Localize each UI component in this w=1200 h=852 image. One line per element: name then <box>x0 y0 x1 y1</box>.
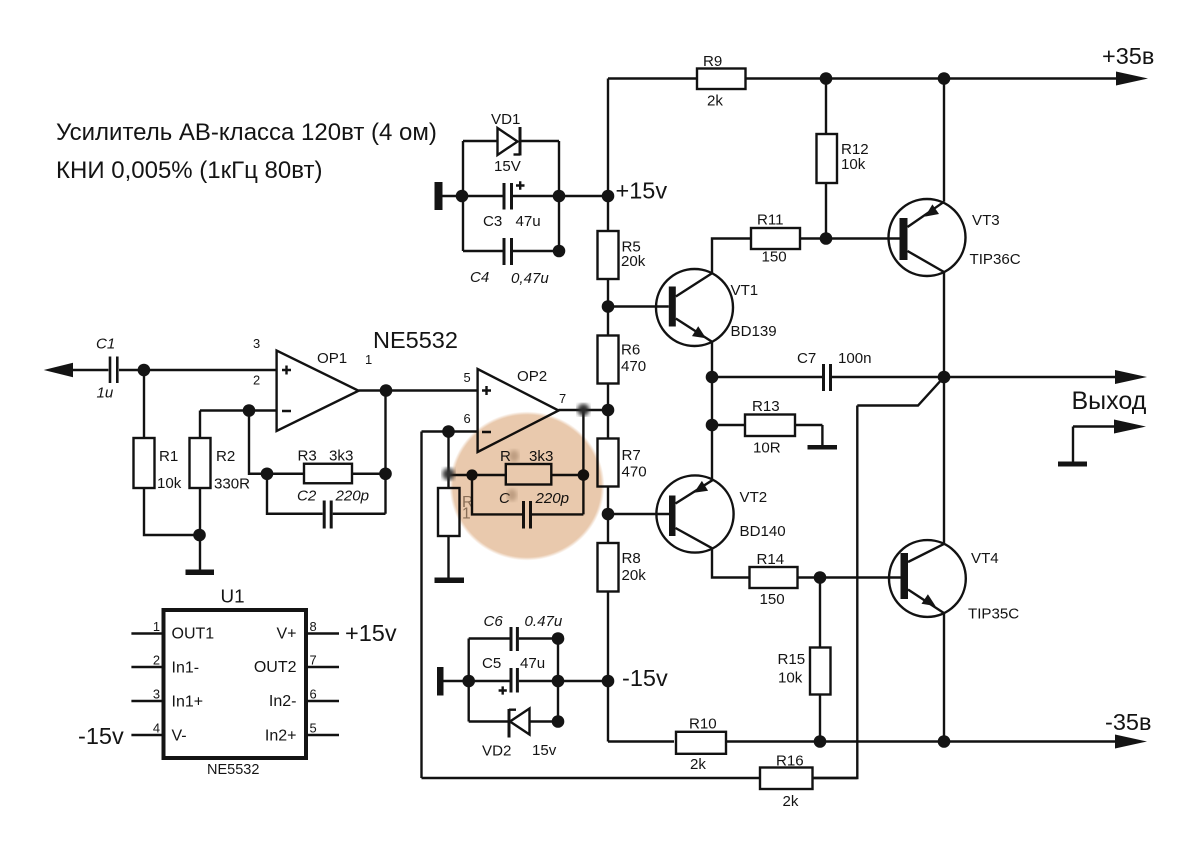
svg-text:1: 1 <box>365 352 372 367</box>
svg-text:C2: C2 <box>297 488 317 505</box>
svg-text:5: 5 <box>464 370 471 385</box>
svg-text:1: 1 <box>153 619 160 634</box>
svg-text:10k: 10k <box>778 670 803 687</box>
svg-text:-35в: -35в <box>1105 709 1151 735</box>
svg-text:150: 150 <box>760 591 785 608</box>
svg-text:Усилитель АВ-класса 120вт (4 о: Усилитель АВ-класса 120вт (4 ом) <box>56 119 437 146</box>
svg-text:NE5532: NE5532 <box>207 762 259 778</box>
svg-text:V+: V+ <box>276 626 296 643</box>
svg-text:3: 3 <box>253 336 260 351</box>
svg-text:OUT1: OUT1 <box>172 626 215 643</box>
svg-text:R2: R2 <box>216 448 235 465</box>
svg-text:OP2: OP2 <box>517 368 547 385</box>
svg-text:2k: 2k <box>707 93 723 110</box>
svg-text:15V: 15V <box>494 158 521 175</box>
svg-text:+35в: +35в <box>1102 43 1154 69</box>
svg-text:NE5532: NE5532 <box>373 327 458 353</box>
svg-text:20k: 20k <box>622 567 647 584</box>
svg-text:In1+: In1+ <box>172 694 204 711</box>
svg-text:2: 2 <box>153 653 160 668</box>
svg-text:OP1: OP1 <box>317 350 347 367</box>
svg-text:10R: 10R <box>753 440 781 457</box>
svg-text:VT3: VT3 <box>972 212 1000 229</box>
svg-text:BD139: BD139 <box>731 323 777 340</box>
svg-text:47u: 47u <box>516 213 541 230</box>
svg-text:R9: R9 <box>703 53 722 70</box>
svg-text:VD1: VD1 <box>491 111 520 128</box>
svg-text:V-: V- <box>172 728 187 745</box>
svg-text:OUT2: OUT2 <box>254 659 297 676</box>
svg-text:+15v: +15v <box>345 620 397 646</box>
svg-text:In1-: In1- <box>172 660 200 677</box>
svg-text:220p: 220p <box>335 488 370 505</box>
svg-text:VT2: VT2 <box>740 489 768 506</box>
svg-text:R3: R3 <box>298 448 317 465</box>
svg-text:R15: R15 <box>778 651 806 668</box>
svg-text:R16: R16 <box>776 753 804 770</box>
svg-text:TIP36C: TIP36C <box>970 251 1021 268</box>
svg-text:10k: 10k <box>841 156 866 173</box>
svg-text:2k: 2k <box>783 793 799 810</box>
svg-text:R8: R8 <box>622 550 641 567</box>
svg-text:470: 470 <box>622 464 647 481</box>
svg-text:TIP35C: TIP35C <box>968 606 1019 623</box>
svg-text:R14: R14 <box>757 551 785 568</box>
svg-text:0.47u: 0.47u <box>525 613 563 630</box>
svg-text:C6: C6 <box>484 613 504 630</box>
svg-text:7: 7 <box>310 653 317 668</box>
svg-text:10k: 10k <box>157 475 182 492</box>
svg-text:7: 7 <box>559 391 566 406</box>
svg-text:R11: R11 <box>757 212 784 229</box>
svg-text:VT4: VT4 <box>971 550 999 567</box>
svg-text:КНИ 0,005% (1кГц 80вт): КНИ 0,005% (1кГц 80вт) <box>56 157 322 184</box>
svg-text:C1: C1 <box>96 336 115 353</box>
svg-text:0,47u: 0,47u <box>511 270 549 287</box>
svg-text:R10: R10 <box>689 716 717 733</box>
svg-text:150: 150 <box>762 249 787 266</box>
svg-text:R6: R6 <box>621 342 640 359</box>
svg-text:-15v: -15v <box>622 665 668 691</box>
svg-text:BD140: BD140 <box>740 523 786 540</box>
svg-text:C4: C4 <box>470 269 489 286</box>
svg-text:2k: 2k <box>690 756 706 773</box>
svg-text:15v: 15v <box>532 742 557 759</box>
svg-text:C3: C3 <box>483 213 502 230</box>
svg-text:+15v: +15v <box>616 178 668 204</box>
svg-text:47u: 47u <box>520 655 545 672</box>
svg-text:100n: 100n <box>838 350 872 367</box>
svg-text:C5: C5 <box>482 655 501 672</box>
svg-text:470: 470 <box>621 358 646 375</box>
svg-text:20k: 20k <box>621 253 646 270</box>
svg-text:6: 6 <box>464 411 471 426</box>
svg-text:330R: 330R <box>214 476 250 493</box>
svg-text:In2+: In2+ <box>265 728 297 745</box>
svg-text:1u: 1u <box>97 385 114 402</box>
svg-text:R7: R7 <box>622 447 641 464</box>
svg-text:Выход: Выход <box>1072 387 1147 415</box>
svg-text:C7: C7 <box>797 350 816 367</box>
svg-text:3k3: 3k3 <box>329 448 353 465</box>
svg-text:R1: R1 <box>159 448 178 465</box>
svg-text:R13: R13 <box>752 398 780 415</box>
svg-text:5: 5 <box>310 721 317 736</box>
svg-text:2: 2 <box>253 373 260 388</box>
svg-text:VT1: VT1 <box>731 282 759 299</box>
svg-text:4: 4 <box>153 721 160 736</box>
svg-text:3: 3 <box>153 687 160 702</box>
svg-text:VD2: VD2 <box>482 743 511 760</box>
svg-text:-15v: -15v <box>78 723 124 749</box>
svg-text:6: 6 <box>310 687 317 702</box>
svg-text:8: 8 <box>310 619 317 634</box>
svg-text:U1: U1 <box>221 586 245 607</box>
svg-text:In2-: In2- <box>269 693 297 710</box>
